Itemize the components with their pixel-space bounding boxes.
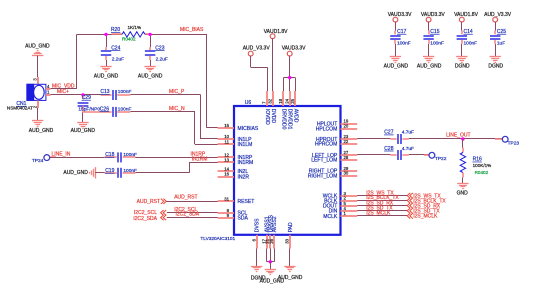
svg-text:SDA: SDA (238, 216, 249, 222)
svg-text:MICBIAS: MICBIAS (238, 126, 259, 132)
svg-text:28: 28 (344, 155, 349, 160)
svg-text:U6: U6 (245, 100, 252, 106)
svg-text:RIGHT_LOM: RIGHT_LOM (308, 173, 337, 179)
svg-text:AUD_GND: AUD_GND (94, 73, 119, 79)
svg-text:11: 11 (225, 140, 230, 145)
svg-text:C14: C14 (464, 29, 473, 35)
svg-text:IN1LM: IN1LM (238, 142, 253, 148)
svg-text:VAUD3.3V: VAUD3.3V (388, 12, 412, 18)
svg-text:AUD_GND: AUD_GND (71, 128, 96, 134)
svg-text:IOVDD: IOVDD (264, 109, 270, 125)
svg-text:100nF: 100nF (430, 41, 444, 47)
svg-text:LINE_OUT: LINE_OUT (446, 133, 470, 139)
svg-text:RESET: RESET (238, 199, 255, 205)
svg-text:AUD_GND: AUD_GND (384, 63, 409, 69)
svg-text:VAUD1.8V: VAUD1.8V (454, 12, 478, 18)
svg-text:MIC_P: MIC_P (169, 89, 185, 95)
svg-text:C13: C13 (100, 89, 109, 95)
svg-text:I2S_MCLK: I2S_MCLK (413, 214, 438, 220)
svg-text:DVSS: DVSS (255, 218, 261, 232)
svg-text:10: 10 (224, 134, 229, 139)
svg-text:C26: C26 (100, 106, 109, 112)
svg-text:100nF: 100nF (118, 106, 132, 112)
svg-text:DRVDD1: DRVDD1 (287, 109, 293, 130)
svg-text:IN2R: IN2R (238, 174, 250, 180)
svg-text:MIC_N: MIC_N (169, 106, 185, 112)
svg-text:C25: C25 (497, 29, 506, 35)
svg-text:LINE_IN: LINE_IN (52, 152, 71, 158)
svg-text:I2S_MCLK: I2S_MCLK (366, 211, 391, 217)
svg-text:100nF: 100nF (464, 41, 478, 47)
svg-text:PAD: PAD (288, 222, 294, 232)
svg-text:R20: R20 (111, 27, 120, 33)
svg-text:AUD_GND: AUD_GND (29, 128, 54, 134)
svg-text:AUD_RST: AUD_RST (174, 195, 197, 201)
svg-text:C24: C24 (111, 45, 120, 51)
svg-text:AVDD: AVDD (292, 109, 298, 123)
svg-text:LEFT_LOM: LEFT_LOM (311, 158, 337, 164)
svg-text:VAUD3.3V: VAUD3.3V (282, 46, 306, 52)
svg-text:AUD_V3.3V: AUD_V3.3V (243, 46, 271, 52)
svg-text:R16: R16 (473, 157, 482, 163)
svg-text:DVDD: DVDD (270, 109, 276, 124)
svg-text:TLV320AIC3101: TLV320AIC3101 (200, 236, 235, 242)
svg-text:NSM0402AT: NSM0402AT (7, 105, 33, 110)
svg-text:100nF: 100nF (118, 89, 132, 95)
svg-text:1uF: 1uF (497, 41, 505, 47)
svg-text:DGND: DGND (455, 63, 470, 69)
svg-text:24: 24 (284, 98, 289, 103)
svg-text:TP22: TP22 (435, 156, 447, 162)
svg-text:TP23: TP23 (508, 140, 520, 146)
svg-text:C15: C15 (430, 29, 439, 35)
svg-text:MCLK: MCLK (323, 214, 338, 220)
svg-text:AUD_RST: AUD_RST (137, 199, 160, 205)
svg-text:AUD_GND: AUD_GND (25, 43, 50, 49)
svg-text:AUD_V3.3V: AUD_V3.3V (484, 12, 512, 18)
svg-text:15: 15 (224, 123, 229, 128)
svg-text:C18: C18 (105, 152, 114, 158)
svg-text:AUD_GND: AUD_GND (63, 170, 88, 176)
svg-text:AUD_GND: AUD_GND (417, 63, 442, 69)
svg-text:31: 31 (224, 197, 229, 202)
svg-text:4.7uF: 4.7uF (402, 130, 414, 136)
svg-text:IN1RM: IN1RM (238, 160, 254, 166)
svg-text:25: 25 (290, 98, 295, 103)
svg-text:IN1RM: IN1RM (192, 156, 208, 162)
svg-text:1K/1%: 1K/1% (128, 25, 142, 30)
svg-text:AUD_GND: AUD_GND (278, 275, 303, 281)
svg-text:32: 32 (267, 98, 272, 103)
svg-text:AVSS2: AVSS2 (272, 216, 278, 232)
svg-text:100K/1%: 100K/1% (473, 163, 492, 168)
svg-text:DRVDD0: DRVDD0 (280, 109, 286, 130)
svg-text:13: 13 (224, 158, 229, 163)
svg-text:100nF: 100nF (397, 41, 411, 47)
svg-text:TP24: TP24 (32, 158, 44, 164)
svg-text:20: 20 (344, 124, 349, 129)
svg-text:DGND: DGND (488, 63, 503, 69)
svg-text:MIC_BIAS: MIC_BIAS (180, 27, 204, 33)
svg-text:R0402: R0402 (122, 37, 136, 42)
svg-text:33: 33 (285, 238, 290, 243)
svg-text:100nF: 100nF (123, 168, 137, 174)
svg-text:HPLCOM: HPLCOM (316, 126, 338, 132)
svg-text:I2C2_SDA: I2C2_SDA (133, 216, 157, 222)
svg-text:GND: GND (457, 190, 469, 196)
svg-text:22: 22 (344, 139, 349, 144)
svg-text:C17: C17 (397, 29, 406, 35)
svg-text:2.2uF: 2.2uF (112, 57, 124, 63)
svg-text:C19: C19 (105, 168, 114, 174)
svg-text:VAUD3.3V: VAUD3.3V (421, 12, 445, 18)
svg-text:C29: C29 (82, 95, 91, 101)
svg-text:16: 16 (224, 172, 229, 177)
svg-text:AUD_GND: AUD_GND (138, 73, 163, 79)
svg-text:VAUD1.8V: VAUD1.8V (264, 29, 288, 35)
svg-text:30: 30 (344, 171, 349, 176)
svg-text:C27: C27 (384, 130, 393, 136)
svg-text:C23: C23 (155, 45, 164, 51)
svg-text:2.2uF: 2.2uF (156, 57, 168, 63)
svg-text:18: 18 (278, 98, 283, 103)
svg-text:R0402: R0402 (475, 170, 489, 175)
svg-text:4.7uF: 4.7uF (402, 146, 414, 152)
svg-text:26: 26 (269, 238, 274, 243)
svg-text:I2C2_SDA: I2C2_SDA (176, 212, 200, 218)
svg-text:100nF: 100nF (123, 152, 137, 158)
svg-text:C28: C28 (384, 146, 393, 152)
svg-text:HPRCOM: HPRCOM (315, 142, 337, 148)
